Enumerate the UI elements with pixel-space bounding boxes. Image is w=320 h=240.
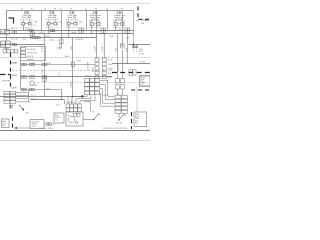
bottom left module box [2,119,10,128]
inline connector C100 [29,29,34,32]
svg-text:C170: C170 [22,39,26,41]
svg-text:SEE FIG: SEE FIG [55,117,62,119]
stub wires below right bus [134,45,137,53]
bottom right text box [134,112,147,127]
junction dot [81,95,83,97]
stubs below center bottom grid [72,101,79,105]
svg-text:G4: G4 [21,9,23,11]
svg-text:12-2: 12-2 [55,119,58,121]
svg-text:C134: C134 [47,63,51,65]
svg-text:F9: F9 [121,9,123,11]
fan wires from left grid [16,90,30,102]
dashed separator y57.5 [0,57,150,59]
right bus y44.5 [129,44,151,46]
right module pin block [95,58,106,79]
svg-text:2.5 GY: 2.5 GY [42,46,44,52]
fuse group F6 CJB [89,11,101,34]
wire bottom center [83,119,94,121]
svg-text:G100: G100 [25,113,29,115]
inline connector on x61.5 [60,39,63,44]
heavy dashed right y90 [131,89,150,91]
svg-text:25 RD: 25 RD [39,32,45,34]
left vertical continuation [6,34,8,41]
switch symbol 1 [94,114,100,120]
svg-text:F8: F8 [54,9,56,11]
rotated labels second set [42,61,94,88]
wire drop x96.5 [96,11,98,35]
svg-text:F2: F2 [31,9,33,11]
drop from y100 to grid [64,100,66,105]
svg-text:S204: S204 [46,88,50,90]
fuse group F38 EJB [21,11,38,30]
inline connector on wire [47,123,49,126]
svg-text:85 GND: 85 GND [27,59,34,61]
frame right edge [133,11,135,46]
wire drop x107.5 [107,11,109,31]
svg-text:NOTE: NOTE [141,78,145,80]
heavy dashed left enclosure vertical [10,53,12,88]
svg-text:0.5 OG: 0.5 OG [31,98,37,100]
inline connector on x122.5 [121,44,124,48]
wire box2 to RHD box [44,123,54,125]
bus line y34 [0,33,134,35]
frame top line [7,10,134,12]
svg-text:1.5 WH: 1.5 WH [94,46,96,52]
svg-text:SYS: SYS [135,120,138,122]
svg-text:B127: B127 [139,51,143,53]
junction S250 [72,96,74,98]
svg-text:0.5 BN/WH: 0.5 BN/WH [88,61,90,70]
right drop x118 [117,64,119,73]
svg-text:F6: F6 [95,9,97,11]
mid vertical wire x44.5 [44,34,46,97]
svg-text:IGN: IGN [67,115,70,117]
wire labels below fuses [25,29,122,34]
ground arrow G100 [19,105,23,110]
heavy dashed stub left y74.5 [0,74,11,76]
heavy dashed vertical bottom-right [131,112,133,129]
svg-text:0.5 VT: 0.5 VT [31,95,36,97]
svg-text:0.5 GY: 0.5 GY [12,75,18,77]
left module box [21,47,46,61]
splice circle [30,81,34,85]
connector pair on firewall [129,70,132,75]
dashed separator y70.5 [12,70,112,72]
heavy dashed firewall y72.5 [112,72,150,74]
svg-text:1 BK/GN: 1 BK/GN [71,81,73,88]
extra wire label smudges [3,36,114,62]
inline connector C101 [50,29,55,32]
RHD box [54,113,64,123]
switch symbol 2 [119,114,126,120]
bottom box B [30,120,44,129]
svg-text:C2011: C2011 [116,94,121,96]
right connector grid [115,96,127,114]
tick labels on top bus [21,9,123,11]
right line y63.5 [112,63,150,65]
heavy dashed corner top-right [138,7,150,20]
svg-text:0.5 BK/GN: 0.5 BK/GN [75,39,83,41]
right label cluster [139,48,144,55]
wire drop x41.5 [41,11,43,31]
center connector grid [85,79,100,95]
coil squiggle right [136,19,149,20]
svg-text:C250E INST: C250E INST [66,102,75,104]
svg-text:(02): (02) [135,123,138,125]
svg-text:12-3: 12-3 [141,84,144,86]
bottom border line [0,130,150,132]
svg-text:TT: TT [6,31,8,33]
junction dot right bus [133,44,135,46]
svg-text:0.5 BN: 0.5 BN [12,62,18,64]
NOTE box right [140,76,151,87]
module left edge vertical [20,61,22,90]
component box with circle [66,112,83,126]
heavy dashed vertical bottom-left [12,117,14,130]
svg-text:Fuse 3(B): Fuse 3(B) [68,17,77,19]
svg-text:C1035B: C1035B [3,48,9,50]
svg-text:Fuse 38(B): Fuse 38(B) [22,17,32,19]
svg-text:C1013: C1013 [8,43,13,45]
bottom connector grid center [66,104,81,112]
dashed separator y82.5 [30,82,150,84]
svg-text:1 RD/BU: 1 RD/BU [94,31,101,33]
starter box left [1,41,6,48]
svg-text:0.5 BK: 0.5 BK [140,62,146,64]
pins of left module [21,47,26,57]
mid vertical wire x73 [72,38,74,97]
svg-text:Fuse 8(B): Fuse 8(B) [48,17,57,19]
svg-text:KEY SW: KEY SW [116,123,123,125]
bus line y37.5 [0,37,97,39]
svg-text:C250: C250 [56,105,60,107]
rotated wire labels mid verticals [42,42,128,52]
fuse group F8 EJB [47,11,63,34]
svg-text:S206: S206 [77,61,81,63]
battery box left [1,30,5,35]
solid line y77 [21,76,113,78]
svg-text:4 BK/YE: 4 BK/YE [44,36,51,38]
svg-text:C2: C2 [85,9,87,11]
fuse group F9 CJB [113,11,125,30]
inline connector C103 [101,28,106,33]
svg-text:6 RD/GY: 6 RD/GY [51,31,58,33]
svg-text:B+ 25 RD: B+ 25 RD [11,39,19,41]
svg-text:G7: G7 [44,9,46,11]
inline connector C106 [13,33,41,46]
wire down right grid [118,113,120,118]
dotted line y40.8 [38,40,62,42]
mid line y96.5 [0,96,83,98]
module rows with connectors [21,65,96,90]
wire drop x86.5 [86,11,88,31]
page edge line top [0,3,150,5]
inline connector C102 [79,28,84,33]
left connector grid [4,91,16,103]
svg-text:PCM PWR: PCM PWR [2,81,11,83]
svg-text:30 IGN SW: 30 IGN SW [27,49,36,51]
right faint vertical [136,87,138,113]
svg-text:C2280: C2280 [109,36,114,38]
mid vertical wire x104 [103,34,105,59]
svg-text:(2002): (2002) [32,126,37,128]
mid vertical wire x122.5b [122,50,124,79]
svg-text:BATT 30: BATT 30 [11,27,18,30]
inline connector on x73 [71,62,74,67]
wire drop x122.5 [122,11,124,48]
svg-text:2.5 GY/BK: 2.5 GY/BK [29,85,37,87]
svg-text:0.35 GY: 0.35 GY [102,95,109,97]
grid right exit wire [84,102,91,113]
mid line y100 [30,99,64,101]
row labels left [12,62,18,89]
svg-text:F3: F3 [70,9,72,11]
svg-text:1 GY: 1 GY [59,71,61,76]
svg-text:B4: B4 [106,9,108,11]
right inline connector stack [116,79,125,90]
fan from center grid [68,80,115,106]
small boxes above module [3,50,18,53]
inline connector C105 [13,31,17,33]
fuse group F3 EJB [67,11,83,37]
bus line y30.5 [7,30,134,32]
svg-text:6 BK/RD: 6 BK/RD [71,32,78,34]
mid vertical wire x61.5b [61,34,63,49]
svg-text:S101: S101 [50,39,54,41]
svg-text:87 PWR OUT: 87 PWR OUT [27,53,37,55]
frame left wire [6,11,8,32]
wire drop x61.5 [61,11,63,35]
svg-text:INTERIOR LIGHTING SYSTEM: INTERIOR LIGHTING SYSTEM [103,128,128,130]
page edge line bottom [0,140,150,142]
svg-text:S110: S110 [126,38,130,40]
svg-text:HOT AT ALL TIMES: HOT AT ALL TIMES [38,127,54,130]
svg-text:0.5 RD: 0.5 RD [92,66,94,72]
text in left boxes [1,30,8,47]
inline connector on x44.5 [43,77,46,82]
wire labels on rows [29,63,109,101]
heavy dashed corner top-left [9,18,14,24]
mid vertical wire x117.5 [117,34,119,79]
inline connector C104 [125,28,130,33]
arrow wire bottom-left [14,127,30,129]
bus line y44.8 short [0,44,45,46]
svg-text:K1: K1 [60,9,62,11]
mid vertical wire x127.5 [127,34,129,64]
mid vertical wire x96.5b [96,34,98,59]
svg-text:C1 4 BN: C1 4 BN [29,63,36,65]
svg-text:SEE: SEE [141,80,144,82]
wire down from left grid [10,103,12,109]
